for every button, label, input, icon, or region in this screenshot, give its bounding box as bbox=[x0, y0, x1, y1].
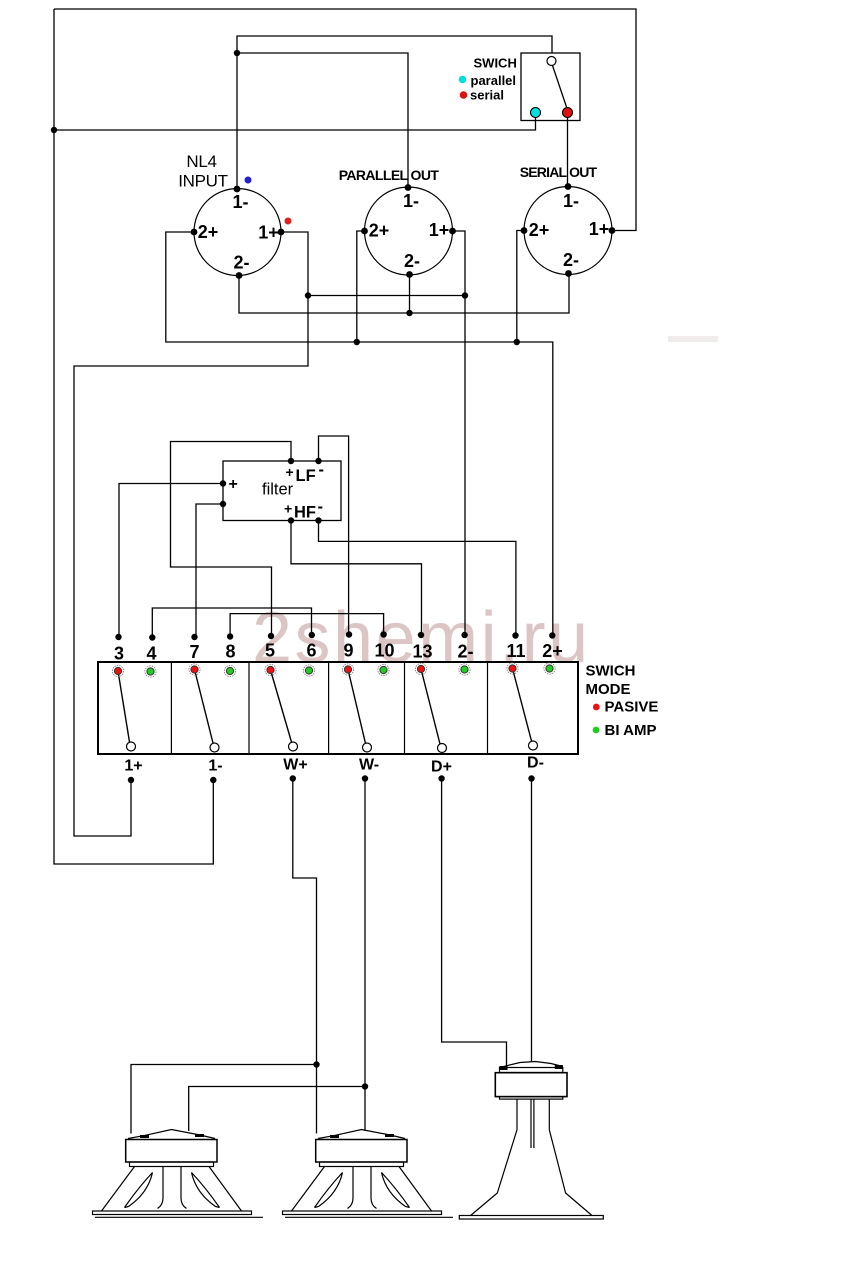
svg-text:SERIAL OUT: SERIAL OUT bbox=[520, 164, 598, 180]
svg-text:2+: 2+ bbox=[542, 641, 563, 661]
svg-text:+: + bbox=[286, 464, 294, 480]
svg-text:HF: HF bbox=[294, 504, 316, 522]
svg-text:1-: 1- bbox=[403, 191, 419, 211]
svg-text:2-: 2- bbox=[457, 642, 473, 662]
svg-text:-: - bbox=[319, 461, 325, 479]
svg-text:2+: 2+ bbox=[198, 222, 219, 242]
svg-text:1+: 1+ bbox=[429, 220, 450, 240]
svg-text:+: + bbox=[229, 476, 238, 493]
svg-text:7: 7 bbox=[189, 642, 199, 662]
svg-text:LF: LF bbox=[296, 467, 316, 485]
svg-text:2+: 2+ bbox=[529, 220, 550, 240]
svg-text:PASIVE: PASIVE bbox=[605, 699, 659, 716]
svg-text:1+: 1+ bbox=[124, 758, 142, 775]
svg-text:4: 4 bbox=[146, 644, 156, 664]
svg-text:3: 3 bbox=[114, 644, 124, 664]
svg-text:8: 8 bbox=[225, 642, 235, 662]
svg-text:1-: 1- bbox=[232, 192, 248, 212]
svg-text:INPUT: INPUT bbox=[178, 172, 228, 191]
svg-text:PARALLEL OUT: PARALLEL OUT bbox=[339, 167, 440, 183]
svg-text:1+: 1+ bbox=[589, 219, 610, 239]
svg-text:filter: filter bbox=[262, 481, 294, 499]
svg-text:1-: 1- bbox=[563, 191, 579, 211]
svg-text:MODE: MODE bbox=[586, 681, 631, 698]
svg-text:5: 5 bbox=[265, 641, 275, 661]
svg-text:9: 9 bbox=[343, 641, 353, 661]
svg-text:BI AMP: BI AMP bbox=[605, 722, 657, 739]
svg-text:2+: 2+ bbox=[369, 221, 390, 241]
svg-text:11: 11 bbox=[506, 641, 525, 661]
svg-text:SWICH: SWICH bbox=[586, 663, 636, 680]
svg-text:parallel: parallel bbox=[471, 73, 517, 88]
svg-text:10: 10 bbox=[374, 641, 394, 661]
svg-text:-: - bbox=[318, 498, 324, 516]
svg-text:W+: W+ bbox=[283, 757, 307, 774]
svg-text:2-: 2- bbox=[563, 250, 579, 270]
svg-text:SWICH: SWICH bbox=[474, 56, 517, 71]
svg-text:1+: 1+ bbox=[258, 223, 279, 243]
svg-text:+: + bbox=[284, 501, 292, 517]
svg-text:1-: 1- bbox=[208, 758, 222, 775]
svg-text:13: 13 bbox=[412, 642, 432, 662]
svg-text:W-: W- bbox=[359, 757, 379, 774]
svg-text:NL4: NL4 bbox=[186, 152, 216, 171]
svg-text:2-: 2- bbox=[404, 251, 420, 271]
svg-text:serial: serial bbox=[470, 88, 504, 103]
svg-text:D+: D+ bbox=[431, 759, 452, 776]
svg-text:2-: 2- bbox=[233, 253, 249, 273]
svg-text:6: 6 bbox=[306, 641, 316, 661]
svg-text:D-: D- bbox=[527, 755, 544, 772]
